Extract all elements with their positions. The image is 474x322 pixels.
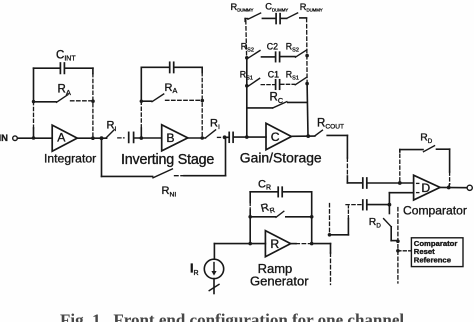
wire ramp input — [214, 243, 265, 245]
wire RD feedback right vertical — [448, 149, 451, 187]
wire gain stage feedback right vertical — [306, 84, 309, 137]
switch RCOUT — [315, 117, 347, 135]
switch RI (first) — [106, 120, 124, 138]
svg-text:RR: RR — [260, 200, 276, 217]
wire RNI right vertical — [225, 137, 227, 175]
svg-text:Comparator: Comparator — [403, 204, 467, 218]
svg-text:RI: RI — [107, 120, 117, 134]
wire ramp feedback left vertical — [249, 192, 251, 244]
svg-text:RS2: RS2 — [241, 41, 254, 53]
svg-text:RD: RD — [369, 217, 382, 229]
comparator reset reference box — [411, 238, 463, 267]
wire dashed vertical left (dummy to S2 row) — [245, 21, 248, 57]
svg-text:IR: IR — [190, 262, 199, 277]
svg-text:RI: RI — [210, 118, 220, 132]
svg-text:RCOUT: RCOUT — [317, 117, 344, 130]
wire comparator output — [440, 186, 467, 188]
switch RS1 left, capacitor C1, switch RS1 right row — [240, 69, 309, 89]
switch RS2 left, capacitor C2, switch RS2 right row — [241, 41, 309, 61]
switch RR — [248, 200, 313, 218]
current source IR — [190, 244, 224, 279]
svg-text:CR: CR — [258, 178, 271, 191]
node integrator input junction — [32, 136, 36, 140]
switch RI (second) — [206, 118, 223, 138]
wire ramp feedback right vertical — [311, 192, 313, 244]
svg-text:RA: RA — [165, 82, 178, 95]
svg-text:Fig. 1. Front end configurati: Fig. 1. Front end configuration for one … — [60, 311, 408, 322]
capacitor (inverting stage feedback) — [141, 62, 202, 72]
capacitor CINT — [34, 50, 93, 74]
svg-text:B: B — [166, 131, 174, 145]
node feedback junction on B output — [200, 136, 204, 140]
node comparator lower input junction — [388, 203, 392, 207]
op-amp A — [44, 125, 96, 165]
svg-text:C1: C1 — [268, 69, 279, 79]
capacitor CR (ramp feedback) — [250, 178, 312, 196]
svg-text:A: A — [57, 131, 66, 145]
node ramp output junction — [310, 242, 314, 246]
node feedback junction on A output — [91, 136, 95, 140]
svg-text:CDUMMY: CDUMMY — [265, 2, 288, 13]
node RNI junction on A output — [100, 136, 104, 140]
wire inverting stage feedback left vertical — [140, 67, 142, 101]
wire RCOUT vertical down — [346, 135, 348, 183]
node output junction — [447, 186, 451, 190]
wire integrator feedback left vertical — [33, 68, 35, 101]
svg-text:D: D — [421, 181, 430, 195]
svg-text:C: C — [271, 130, 280, 144]
capacitor coupling B-C — [225, 132, 266, 142]
op-amp D comparator — [403, 175, 467, 218]
switch RD (reset) — [369, 205, 398, 241]
svg-text:Inverting Stage: Inverting Stage — [121, 152, 214, 168]
op-amp C — [240, 123, 322, 165]
wire ramp output elbow down — [330, 244, 332, 285]
node IN terminal — [0, 133, 17, 144]
switch R_DUMMY left and capacitor C_DUMMY row — [245, 13, 306, 24]
capacitor coupling to comparator upper input — [347, 178, 413, 188]
wire inverting stage feedback right vertical (dashed) — [201, 67, 203, 72]
svg-text:RDUMMY: RDUMMY — [300, 2, 323, 13]
wire integrator feedback right vertical (dashed) — [92, 68, 94, 73]
wire dashed vertical to lower coupling — [328, 204, 349, 237]
wire integrator output — [77, 137, 106, 139]
node reset net elbow junction — [396, 239, 400, 243]
switch RD (comparator feedback) — [400, 133, 450, 181]
svg-text:IN: IN — [0, 133, 8, 144]
svg-text:Integrator: Integrator — [44, 151, 96, 165]
node RNI junction before coupling cap — [223, 135, 227, 139]
svg-text:CINT: CINT — [56, 50, 76, 63]
wire dashed reset net vertical — [397, 208, 399, 284]
svg-text:RD: RD — [420, 133, 433, 145]
node comparator upper input junction — [398, 181, 402, 185]
capacitor coupling A-B — [129, 132, 162, 142]
svg-text:R: R — [270, 237, 279, 251]
switch RA (inverting stage) — [140, 82, 205, 103]
wire dashed vertical right (dummy to S1 row) — [306, 18, 309, 83]
wire riser to comparator lower input — [389, 193, 413, 205]
wire IN to integrator input — [17, 137, 52, 139]
op-amp B — [121, 125, 214, 168]
svg-text:RA: RA — [58, 84, 71, 97]
node gain output junction — [306, 134, 310, 138]
op-amp R ramp — [250, 231, 309, 289]
switch RA (integrator) — [32, 84, 95, 104]
svg-text:RS1: RS1 — [286, 69, 299, 81]
svg-text:RS2: RS2 — [286, 41, 299, 53]
node gain stage input junction — [245, 135, 249, 139]
svg-text:RNI: RNI — [162, 185, 177, 198]
svg-text:Generator: Generator — [250, 274, 309, 289]
capacitor coupling to comparator lower input — [363, 200, 390, 210]
switch RC — [247, 92, 307, 108]
node inverting stage input junction — [140, 136, 144, 140]
svg-text:Reference: Reference — [414, 256, 452, 265]
wire dashed to reference box — [398, 250, 411, 252]
node ramp input junction — [248, 242, 252, 246]
svg-text:C2: C2 — [267, 41, 278, 51]
wire RNI left vertical — [101, 138, 103, 176]
wire ramp output — [291, 243, 331, 245]
switch RNI — [102, 169, 226, 199]
svg-text:Gain/Storage: Gain/Storage — [240, 150, 322, 166]
node output terminal — [467, 185, 472, 190]
svg-text:RC: RC — [270, 92, 284, 105]
wire inverting stage output — [188, 137, 206, 139]
wire dashed into lower coupling capacitor — [346, 204, 362, 206]
wire gain stage feedback left vertical — [246, 58, 248, 137]
wire IR to ground stub — [209, 279, 219, 294]
svg-text:RDUMMY: RDUMMY — [231, 2, 254, 13]
wire gain stage output — [291, 135, 314, 137]
node reset reference tap junction — [396, 249, 400, 253]
